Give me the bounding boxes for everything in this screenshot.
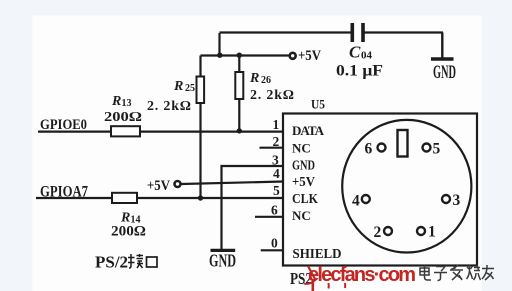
svg-text:200Ω: 200Ω: [104, 110, 142, 125]
svg-text:25: 25: [185, 83, 195, 94]
svg-text:2: 2: [273, 134, 280, 149]
watermark Chinese shao (burn) glyph: [467, 265, 481, 280]
svg-text:+5V: +5V: [147, 178, 170, 194]
svg-text:26: 26: [261, 75, 271, 86]
DIN pin 4 hole: [362, 195, 370, 203]
capacitor C04 plates: [351, 23, 365, 42]
svg-text:NC: NC: [292, 141, 311, 156]
wire: CLK line from GPIOA7 to U5 pin 5: [36, 197, 283, 199]
svg-text:+5V: +5V: [292, 175, 315, 190]
svg-text:4: 4: [352, 193, 360, 210]
svg-text:+5V: +5V: [298, 48, 321, 64]
watermark Chinese zi (child) glyph: [434, 267, 447, 281]
svg-text:5: 5: [273, 183, 280, 198]
svg-text:0: 0: [271, 235, 278, 250]
svg-text:200Ω: 200Ω: [111, 224, 146, 240]
node junction dot at R26 top on +5V rail: [237, 53, 242, 58]
svg-text:R: R: [111, 94, 121, 109]
DIN pin 3 hole: [442, 195, 450, 203]
watermark Chinese you (friend) glyph: [482, 265, 494, 280]
watermark Chinese dian (electron) glyph: [420, 265, 431, 280]
svg-text:0.1 μF: 0.1 μF: [336, 63, 383, 80]
DIN pin 6 hole: [378, 144, 386, 152]
node junction dot R25 bottom on CLK line: [198, 195, 203, 200]
svg-text:3: 3: [453, 192, 461, 209]
watermark drip under e: [311, 280, 314, 291]
svg-text:1: 1: [273, 117, 280, 132]
svg-text:04: 04: [361, 50, 373, 62]
wire: capacitor right plate to GND drop: [365, 31, 444, 33]
svg-text:2. 2kΩ: 2. 2kΩ: [250, 88, 294, 103]
svg-text:SHIELD: SHIELD: [293, 247, 342, 262]
pin 6 stub wire: [255, 216, 283, 218]
watermark red scribble over PS2: [308, 266, 316, 280]
ground symbol middle: [211, 249, 236, 252]
DIN pin 1 hole: [417, 227, 425, 235]
DIN connector face circle: [342, 120, 471, 253]
svg-text:GND: GND: [209, 250, 236, 270]
svg-text:1: 1: [428, 224, 436, 241]
resistor R13: [111, 126, 140, 136]
svg-text:2: 2: [374, 224, 382, 241]
svg-text:GND: GND: [292, 159, 315, 174]
svg-text:C: C: [349, 43, 361, 62]
svg-text:13: 13: [122, 98, 132, 109]
wire: DATA line from GPIOE0 to U5 pin 1: [38, 131, 283, 133]
resistor R14: [112, 193, 137, 203]
resistor R25: [197, 56, 205, 199]
svg-text:CLK: CLK: [292, 191, 318, 206]
wire: +5V feed to U5 pin 4: [182, 182, 284, 185]
svg-text:U5: U5: [311, 97, 325, 112]
svg-text:GND: GND: [433, 62, 456, 83]
svg-text:elecfans·com: elecfans·com: [308, 264, 415, 286]
svg-text:2. 2kΩ: 2. 2kΩ: [147, 99, 191, 114]
wire: corner vertical joining top rail to +5V rail: [218, 33, 220, 56]
svg-text:4: 4: [273, 166, 280, 181]
+5V terminal ring (top): [290, 53, 296, 59]
connector U5 box: [283, 114, 477, 266]
watermark drip under f: [344, 283, 346, 288]
svg-text:R: R: [173, 79, 183, 94]
svg-text:6: 6: [271, 203, 278, 218]
wire: top rail from corner to capacitor left plate: [220, 31, 351, 33]
ground symbol top right: [431, 33, 454, 60]
DIN pin 5 hole: [423, 144, 431, 152]
svg-text:PS/2: PS/2: [95, 253, 128, 272]
+5V terminal ring (lower): [175, 181, 181, 187]
node junction dot at corner on +5V rail: [217, 53, 222, 58]
resistor R26: [235, 56, 243, 132]
svg-text:R: R: [249, 71, 259, 86]
pin 2 stub wire: [260, 147, 284, 149]
DIN pin 2 hole: [384, 227, 392, 235]
svg-text:DATA: DATA: [292, 123, 325, 138]
DIN key slot: [398, 130, 408, 157]
watermark Chinese fa (emit) glyph: [450, 265, 463, 280]
svg-text:5: 5: [433, 141, 441, 158]
caption Chinese jie (interface) glyph: [128, 254, 143, 268]
svg-text:6: 6: [365, 141, 373, 158]
caption Chinese kou (port) glyph: [147, 257, 158, 267]
svg-text:NC: NC: [292, 208, 311, 223]
pin 0 stub wire: [261, 249, 283, 251]
wire: U5 pin 3 to ground: [222, 166, 284, 250]
wire: +5V rail: [201, 54, 290, 56]
node junction dot R26 on DATA line: [237, 128, 242, 133]
